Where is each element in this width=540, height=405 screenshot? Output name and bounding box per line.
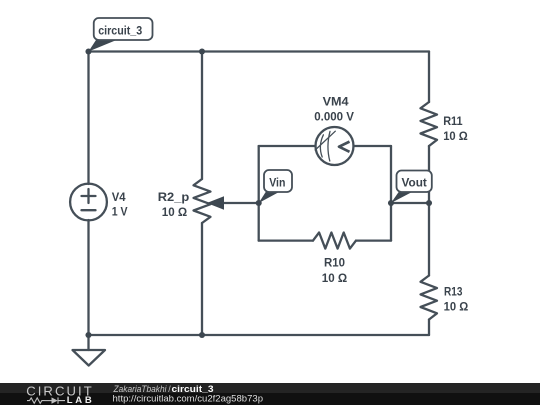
voltmeter VM4 scale arc left [320,135,323,157]
resistor R13 top lead [428,203,430,276]
potentiometer R2_p bottom lead [201,223,203,335]
wire left rail upper (top rail to V4) [87,52,89,185]
svg-text:LAB: LAB [67,395,92,405]
junction dot right rail [426,200,432,206]
resistor R10 zigzag [313,233,356,249]
CircuitLab logo wordmark [26,384,92,405]
wire Vout node to right rail [391,202,429,204]
V4 plus sign [82,189,96,203]
junction dot R2_p top [199,48,205,54]
svg-text:circuit_3: circuit_3 [98,26,142,38]
wire bottom rail [89,334,430,336]
resistor R13 zigzag [421,276,438,320]
wire R10 left lead [259,239,313,241]
wire left rail lower (V4 to bottom rail) [87,220,89,335]
svg-text:10 Ω: 10 Ω [322,273,347,285]
svg-text:Vout: Vout [402,178,427,190]
resistor R11 bottom lead [428,146,430,203]
svg-text:0.000 V: 0.000 V [314,111,354,123]
resistor R11 top lead [428,52,430,103]
wire VM4 left lead [259,145,316,147]
CircuitLab logo resistor-diode glyph [27,397,65,403]
R2_p wiper arrow [207,196,224,210]
footer bar [0,383,540,405]
junction dot node Vout [388,200,394,206]
svg-text:1 V: 1 V [112,206,128,218]
wire R10 right lead [356,239,391,241]
node flag Vin [259,170,292,203]
resistor R11 zigzag [421,102,438,146]
potentiometer R2_p top lead [201,52,203,180]
junction dot bottom-left [85,332,91,338]
wire ground stub [87,335,89,350]
resistor R13 bottom lead [428,320,430,336]
node flag Vout [391,171,432,204]
junction dot top-left node [85,48,91,54]
junction dot node Vin [256,200,262,206]
svg-text:10 Ω: 10 Ω [162,207,187,219]
svg-text:R11: R11 [443,116,463,128]
wire VM4 right lead [354,145,392,147]
svg-text:10 Ω: 10 Ω [443,131,468,143]
wire top rail [89,50,430,52]
wire Vout vertical (VM4 loop right) [390,146,392,241]
junction dot R2_p bottom [199,332,205,338]
svg-text:R13: R13 [444,287,462,299]
voltmeter VM4 scale arc right [328,131,330,161]
voltmeter VM4 less-than mark [339,142,350,152]
svg-text:VM4: VM4 [323,97,350,109]
svg-text:V4: V4 [112,192,126,204]
svg-text:R10: R10 [324,258,345,270]
svg-text:R2_p: R2_p [158,192,190,204]
voltmeter VM4 needle [315,131,335,150]
wire Vin vertical (VM4 loop left) [258,146,260,241]
ground symbol [73,350,106,366]
svg-text:Vin: Vin [269,177,285,189]
wire R2_p wiper to Vin node [220,202,259,204]
svg-text:circuit_3: circuit_3 [172,384,214,394]
svg-text:10 Ω: 10 Ω [444,301,469,313]
voltmeter VM4 circle [316,127,354,165]
footer credit line [113,384,264,404]
svg-text:http://circuitlab.com/cu2f2ag5: http://circuitlab.com/cu2f2ag58b73p [113,394,264,404]
voltage source V4 circle [70,184,107,221]
V4 minus sign [82,209,96,211]
node flag circuit_3 [89,18,153,52]
potentiometer R2_p zigzag [194,179,211,223]
svg-text:ZakariaTbakhi: ZakariaTbakhi [113,384,168,394]
